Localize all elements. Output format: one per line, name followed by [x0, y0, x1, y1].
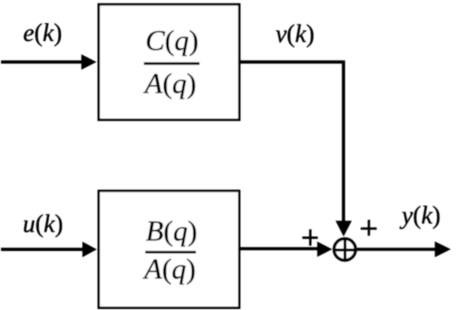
arrowhead into G2 [82, 242, 96, 258]
wire G2 output to junction [240, 247, 319, 250]
wire input u(k) [1, 248, 84, 251]
wire junction to output [357, 248, 437, 251]
wire input e(k) [1, 60, 83, 63]
svg-text:B(q): B(q) [146, 215, 198, 247]
arrowhead into junction from left [317, 242, 332, 257]
svg-text:e(k): e(k) [23, 20, 62, 47]
plus sign right of junction [361, 220, 377, 236]
svg-text:A(q): A(q) [142, 254, 196, 286]
arrowhead down into junction [336, 221, 352, 237]
summing junction cross [334, 239, 356, 261]
summing junction circle [334, 239, 355, 260]
svg-text:C(q): C(q) [145, 25, 198, 57]
block G2 box B(q)/A(q) [99, 191, 240, 308]
wire G1 output to junction (horizontal then down) [240, 62, 344, 222]
fraction bar of G2 [145, 251, 196, 254]
svg-text:y(k): y(k) [399, 203, 441, 230]
arrowhead into G1 [81, 54, 96, 70]
svg-text:v(k): v(k) [276, 21, 315, 48]
arrowhead output y(k) [435, 241, 451, 257]
svg-text:A(q): A(q) [143, 68, 197, 100]
block G1 box C(q)/A(q) [99, 4, 240, 119]
plus sign left of junction [302, 229, 318, 245]
svg-text:u(k): u(k) [23, 211, 63, 238]
fraction bar of G1 [144, 62, 200, 65]
